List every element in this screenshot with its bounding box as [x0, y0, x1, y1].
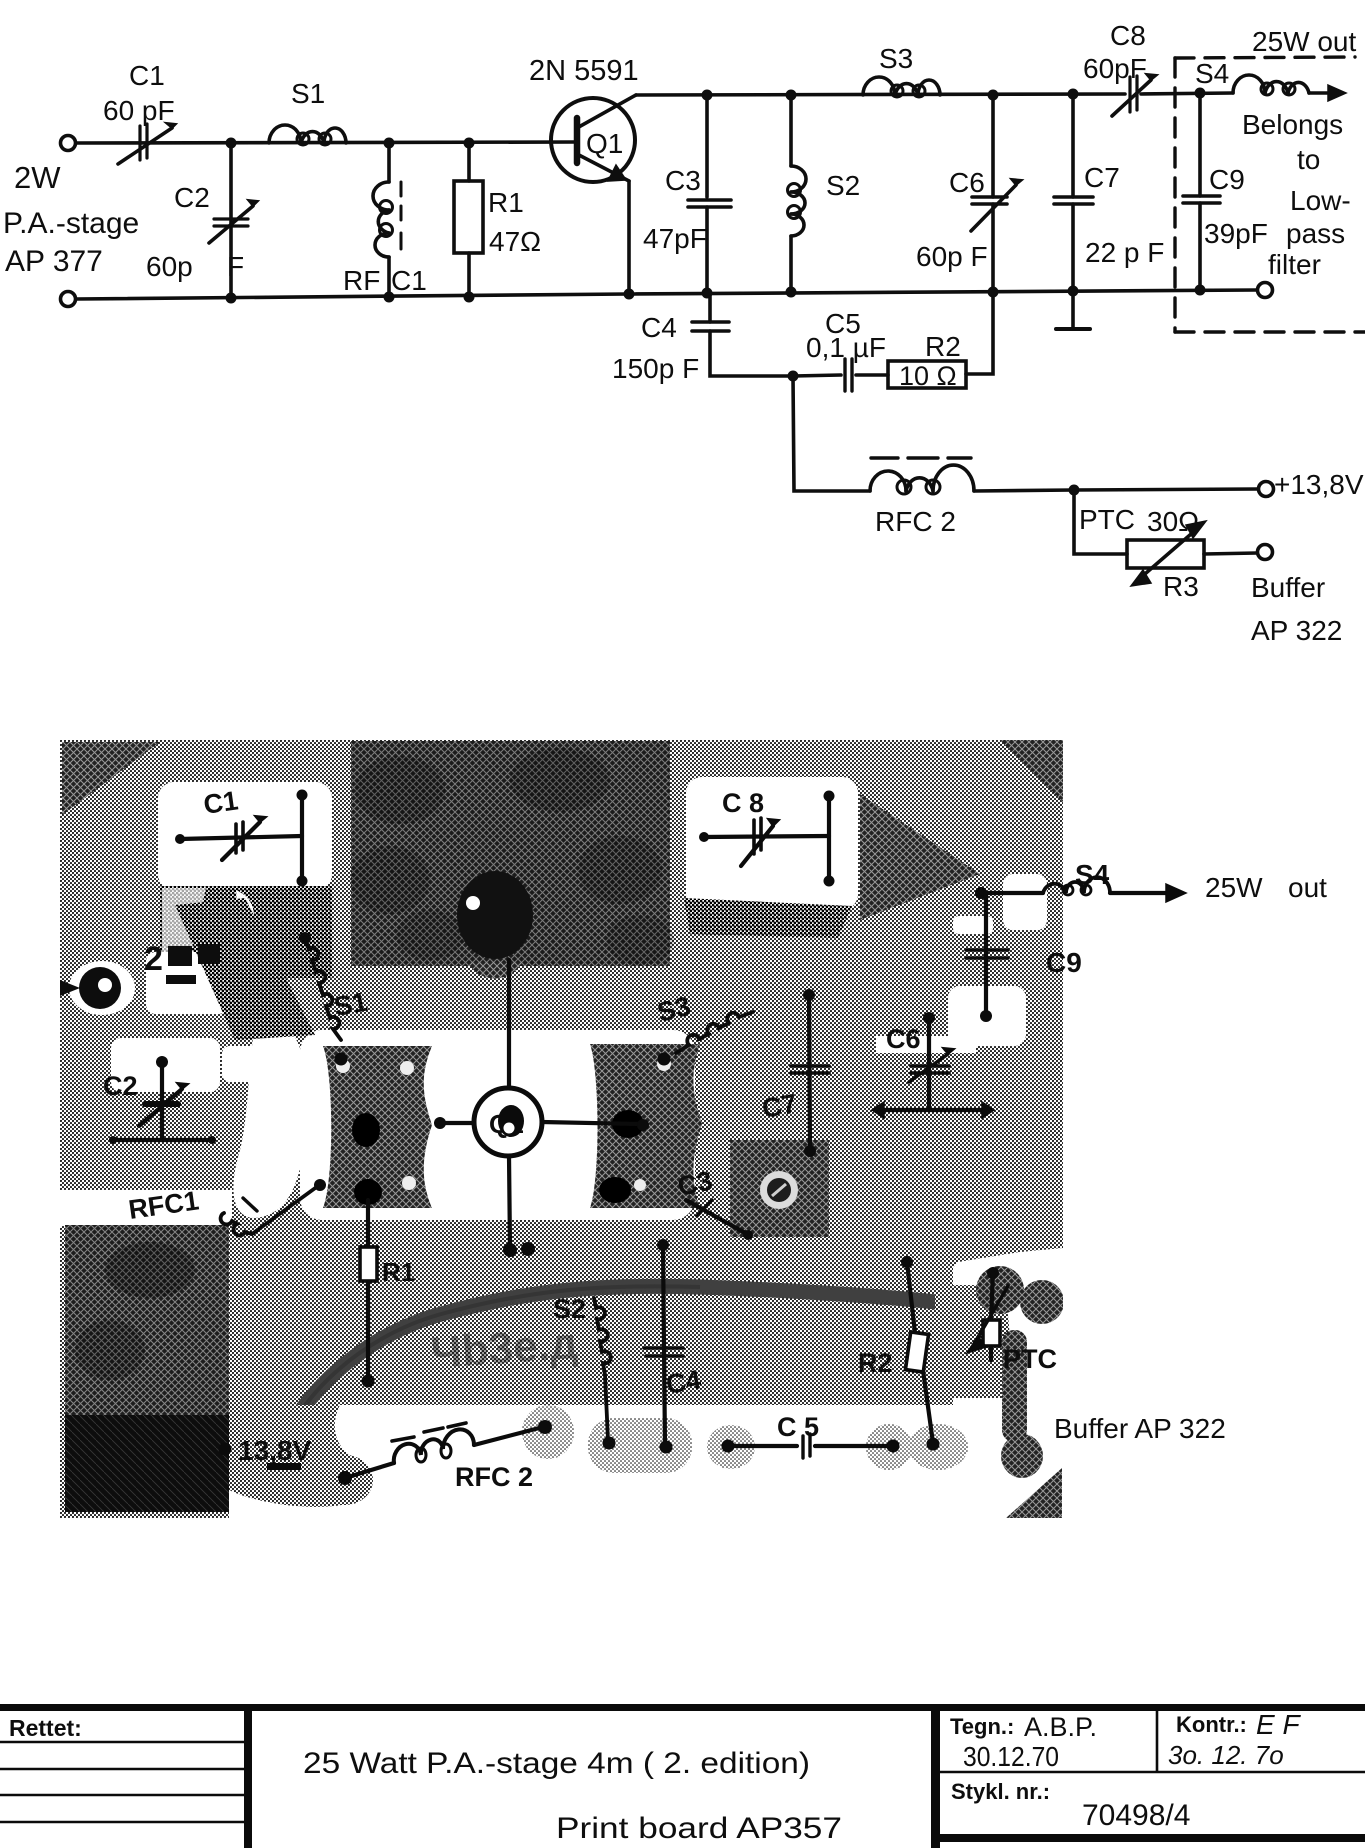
svg-text:out: out: [1288, 872, 1327, 903]
photo dark top-right corner: [998, 738, 1063, 802]
node junction C3 top: [702, 90, 713, 101]
svg-text:C8: C8: [1110, 20, 1146, 51]
svg-text:C1: C1: [202, 785, 240, 820]
svg-text:C1: C1: [129, 60, 165, 91]
capacitor C7 on board: [760, 989, 829, 1157]
photo dark swoosh trace: [300, 1286, 962, 1412]
photo gray pads on white band: [522, 1405, 574, 1459]
photo medium diagonal shadow under C1: [175, 898, 315, 1040]
svg-text:22 p F: 22 p F: [1085, 237, 1164, 268]
svg-text:RFC 2: RFC 2: [875, 506, 956, 537]
svg-text:60pF: 60pF: [1083, 53, 1147, 84]
svg-text:Buffer: Buffer: [1251, 572, 1325, 603]
photo white S4 area: [1003, 874, 1047, 930]
photo white box C8: [686, 777, 858, 910]
inductor S3 squiggle on board: [654, 991, 753, 1066]
svg-text:150p F: 150p F: [612, 353, 699, 384]
svg-text:C1: C1: [391, 265, 427, 296]
svg-text:R2: R2: [925, 331, 961, 362]
PTC on board: [967, 1267, 1057, 1374]
resistor R1 on board: [360, 1200, 415, 1388]
inductor RFC1: [343, 143, 427, 297]
svg-text:C3: C3: [665, 165, 701, 196]
inductor S3: [863, 43, 940, 97]
photo dark block screw: [457, 871, 533, 959]
svg-text:C6: C6: [949, 167, 985, 198]
svg-text:25W: 25W: [1205, 872, 1263, 903]
node junction PTC branch: [1069, 485, 1080, 496]
capacitor C8 60pF trimmer: [1083, 20, 1157, 116]
svg-text:AP 322: AP 322: [1251, 615, 1342, 646]
bottom thick line: [940, 1834, 1365, 1842]
svg-text:F: F: [227, 251, 244, 282]
photo white box C2: [111, 1038, 220, 1092]
photo left transformer blob: [323, 1046, 432, 1208]
svg-text:Buffer AP 322: Buffer AP 322: [1054, 1413, 1226, 1444]
capacitor C8 on board: [699, 788, 835, 887]
node junction C7 top: [1068, 89, 1079, 100]
svg-text:S2: S2: [553, 1294, 586, 1324]
svg-text:3o. 12. 7o: 3o. 12. 7o: [1168, 1740, 1284, 1770]
svg-text:Kontr.:: Kontr.:: [1176, 1712, 1247, 1737]
svg-text:PTC: PTC: [1003, 1344, 1057, 1374]
svg-text:C4: C4: [664, 1364, 703, 1400]
svg-text:E F: E F: [1256, 1709, 1301, 1740]
photo dark square C3 screw area: [730, 1140, 829, 1237]
svg-text:S4: S4: [1195, 58, 1229, 89]
svg-text:+13,8V: +13,8V: [1274, 469, 1364, 500]
svg-text:25W out: 25W out: [1252, 26, 1356, 57]
rettet ruled lines: [0, 1742, 244, 1822]
svg-text:C9: C9: [1209, 164, 1245, 195]
wire top rail input: [76, 142, 577, 143]
svg-text:13,8V: 13,8V: [238, 1435, 311, 1466]
input terminal top: [61, 136, 76, 151]
transistor Q1 2N5591: [529, 55, 639, 294]
svg-text:S2: S2: [826, 170, 860, 201]
svg-text:S1: S1: [291, 78, 325, 109]
inductor RFC2: [870, 458, 974, 537]
inductor S1 squiggle on board: [299, 932, 370, 1066]
svg-text:0,1 µF: 0,1 µF: [806, 332, 886, 363]
inductor S4 on board with 25W out arrow: [975, 859, 1327, 903]
photo annotations: [103, 785, 1327, 1492]
capacitor C3 47pF: [643, 95, 731, 293]
wire RFC2 to +13.8V: [974, 489, 1258, 491]
wire collector rail: [636, 94, 1125, 95]
photo dark top-center block: [351, 741, 670, 966]
terminal +13.8V: [1259, 482, 1274, 497]
svg-text:C7: C7: [1084, 162, 1120, 193]
photo input hole donut: [79, 967, 121, 1009]
inductor S2: [786, 90, 861, 293]
photo medium shadow under C8: [684, 898, 852, 938]
capacitor C7 22pF: [1054, 94, 1164, 329]
transistor Q1 on board: [434, 960, 649, 1257]
node junction R1 top: [464, 138, 475, 149]
photo white box 2W marking: [146, 952, 228, 1014]
svg-text:Rettet:: Rettet:: [9, 1715, 82, 1741]
svg-text:C4: C4: [641, 312, 677, 343]
photo white bottom band: [229, 1405, 1063, 1518]
svg-text:10 Ω: 10 Ω: [899, 361, 957, 391]
node junction C6 top: [988, 90, 999, 101]
svg-text:Q1: Q1: [586, 128, 623, 159]
svg-text:Low-: Low-: [1290, 185, 1351, 216]
svg-text:R2: R2: [858, 1348, 893, 1378]
rettet box right edge: [244, 1705, 252, 1848]
wire C5 node down to RFC2: [793, 376, 870, 491]
resistor R2 10ohm: [888, 292, 993, 391]
resistor R1 47ohm: [454, 143, 541, 297]
svg-text:30Ω: 30Ω: [1147, 506, 1199, 537]
photo white band above dark rect: [60, 1190, 232, 1226]
node junction RFC1 top: [384, 138, 395, 149]
node A junction C2 top: [226, 138, 237, 149]
photo PTC dark blobs: [935, 1285, 1010, 1398]
capacitor C6 60pF trimmer: [916, 95, 1022, 292]
capacitor C9 on board: [966, 893, 1082, 1022]
svg-text:60p: 60p: [146, 251, 193, 282]
photo white right zone PTC: [953, 1248, 1063, 1497]
resistor R2 on board: [858, 1256, 940, 1451]
tegn/stykl divider: [940, 1771, 1365, 1774]
inductor S4: [1195, 58, 1309, 95]
photo white box C1: [158, 782, 332, 890]
svg-text:AP 377: AP 377: [5, 245, 103, 278]
inductor S2 squiggle on board: [553, 1294, 616, 1450]
frame top line: [0, 1704, 1365, 1711]
svg-text:39pF: 39pF: [1204, 218, 1268, 249]
tegn box left edge: [931, 1705, 940, 1848]
capacitor C2 on board: [103, 1056, 216, 1144]
photo dark right triangle heatsink: [860, 794, 980, 920]
photo white blob input hole: [69, 961, 135, 1015]
capacitor C5 on board: [722, 1412, 900, 1458]
capacitor C1: [103, 60, 176, 164]
input terminal bottom: [61, 292, 76, 307]
capacitor C3 leader on board: [675, 1165, 753, 1240]
svg-text:25 Watt P.A.-stage 4m ( 2. e: 25 Watt P.A.-stage 4m ( 2. edition): [303, 1747, 810, 1780]
capacitor C5 0.1uF: [793, 308, 888, 391]
wire C8 to S4: [1141, 93, 1233, 94]
wire bottom rail: [76, 290, 1257, 299]
svg-text:Tegn.:: Tegn.:: [950, 1714, 1014, 1739]
svg-text:S3: S3: [879, 43, 913, 74]
inductor RFC2 on board: [338, 1420, 552, 1492]
node junction C5 left: [788, 371, 799, 382]
svg-text:60 pF: 60 pF: [103, 95, 175, 126]
capacitor C4 150pF: [612, 293, 793, 384]
svg-text:R1: R1: [488, 187, 524, 218]
svg-text:47Ω: 47Ω: [489, 226, 541, 257]
svg-text:to: to: [1297, 144, 1320, 175]
capacitor C2: [146, 143, 258, 298]
svg-text:C2: C2: [174, 182, 210, 213]
photo bottom-right corner triangle: [1006, 1468, 1062, 1518]
photo white C9/C6 area: [948, 986, 1026, 1046]
svg-text:pass: pass: [1286, 218, 1345, 249]
photo left bottom dark rectangle: [65, 1225, 229, 1512]
svg-text:Чb3е.д: Чb3е.д: [429, 1319, 579, 1378]
svg-text:Belongs: Belongs: [1242, 109, 1343, 140]
svg-text:Stykl. nr.:: Stykl. nr.:: [951, 1779, 1050, 1804]
svg-text:RF: RF: [343, 265, 380, 296]
capacitor C9 39pF: [1183, 93, 1268, 290]
photo dark top-left triangle: [62, 742, 160, 815]
svg-text:47pF: 47pF: [643, 223, 707, 254]
svg-text:2N 5591: 2N 5591: [529, 55, 639, 87]
capacitor C4 on board: [644, 1239, 703, 1454]
svg-text:C 5: C 5: [777, 1412, 819, 1442]
svg-text:60p F: 60p F: [916, 241, 988, 272]
photo white central rect: [300, 1030, 695, 1220]
photo gray tongue 13.8V: [229, 1405, 366, 1507]
svg-text:C9: C9: [1046, 947, 1082, 978]
wire S4 output arrow: [1309, 91, 1330, 95]
pcb photo base halftone: [60, 740, 1063, 1518]
svg-text:30.12.70: 30.12.70: [963, 1741, 1059, 1772]
svg-text:2W: 2W: [14, 160, 61, 195]
terminal buffer: [1258, 545, 1273, 560]
svg-text:C2: C2: [103, 1071, 138, 1101]
dashed box low-pass filter: [1175, 57, 1365, 332]
kontr divider vertical: [1156, 1709, 1159, 1772]
svg-text:RFC 2: RFC 2: [455, 1462, 533, 1492]
svg-text:A.B.P.: A.B.P.: [1024, 1712, 1097, 1742]
svg-text:Print board AP357: Print board AP357: [556, 1812, 842, 1845]
resistor R3 PTC 30ohm: [1074, 490, 1257, 602]
svg-text:70498/4: 70498/4: [1082, 1799, 1190, 1832]
svg-text:2: 2: [144, 940, 163, 978]
svg-text:R3: R3: [1163, 571, 1199, 602]
svg-text:C6: C6: [886, 1024, 921, 1054]
svg-text:R1: R1: [382, 1257, 415, 1287]
capacitor C6 on board: [872, 1012, 994, 1118]
photo white S-curve band left of transformer: [233, 1010, 306, 1218]
svg-text:C 8: C 8: [722, 788, 764, 818]
svg-text:P.A.-stage: P.A.-stage: [3, 207, 139, 240]
inductor RFC1 squiggle on board: [127, 1179, 326, 1235]
photo right transformer blob: [590, 1044, 702, 1208]
svg-text:C7: C7: [760, 1088, 799, 1124]
inductor S1: [269, 78, 346, 145]
svg-text:filter: filter: [1268, 249, 1321, 280]
svg-text:PTC: PTC: [1079, 504, 1135, 535]
capacitor C1 on board: [175, 785, 308, 886]
output terminal bottom rail: [1258, 283, 1273, 298]
node junction C9 top: [1195, 88, 1206, 99]
13.8V feed on board: [219, 1435, 312, 1470]
